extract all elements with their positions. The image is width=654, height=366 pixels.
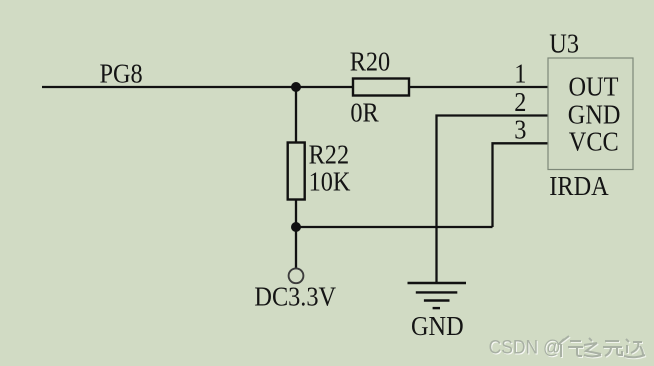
pin 3 bbox=[514, 114, 526, 144]
ground bbox=[408, 283, 467, 308]
resistor R22 bbox=[288, 143, 305, 200]
watermark bbox=[489, 336, 646, 359]
svg-text:2: 2 bbox=[514, 87, 526, 117]
wire bbox=[295, 200, 297, 269]
wire bbox=[296, 226, 493, 228]
pin 2 bbox=[514, 87, 526, 117]
wire bbox=[437, 116, 549, 283]
pin name GND bbox=[568, 99, 621, 129]
pin 1 bbox=[514, 58, 526, 88]
label DC3.3V bbox=[254, 281, 336, 311]
svg-text:R20: R20 bbox=[350, 46, 390, 76]
pin name VCC bbox=[569, 127, 619, 157]
label R22 bbox=[309, 139, 349, 169]
label GND bbox=[411, 311, 464, 341]
node PG8 bbox=[100, 58, 143, 88]
svg-text:CSDN @: CSDN @ bbox=[489, 336, 561, 358]
wire bbox=[409, 86, 548, 88]
svg-text:1: 1 bbox=[514, 58, 526, 88]
svg-text:OUT: OUT bbox=[569, 72, 619, 102]
svg-text:DC3.3V: DC3.3V bbox=[254, 281, 336, 311]
value 10K bbox=[309, 166, 351, 196]
pin name OUT bbox=[569, 72, 619, 102]
IC U3 bbox=[548, 58, 633, 170]
wire bbox=[493, 143, 549, 227]
power terminal DC3.3V bbox=[289, 268, 304, 283]
svg-text:0R: 0R bbox=[350, 97, 379, 127]
value 0R bbox=[350, 97, 379, 127]
svg-text:IRDA: IRDA bbox=[549, 171, 609, 201]
label U3 bbox=[549, 28, 579, 58]
resistor R20 bbox=[353, 79, 409, 96]
junction bbox=[291, 222, 301, 232]
label IRDA bbox=[549, 171, 609, 201]
svg-text:U3: U3 bbox=[549, 28, 579, 58]
wire bbox=[42, 86, 352, 88]
svg-text:PG8: PG8 bbox=[100, 58, 143, 88]
svg-text:10K: 10K bbox=[309, 166, 351, 196]
svg-text:3: 3 bbox=[514, 114, 526, 144]
svg-text:R22: R22 bbox=[309, 139, 349, 169]
svg-text:GND: GND bbox=[411, 311, 464, 341]
svg-text:VCC: VCC bbox=[569, 127, 619, 157]
wire bbox=[295, 87, 297, 143]
svg-text:GND: GND bbox=[568, 99, 621, 129]
label R20 bbox=[350, 46, 390, 76]
junction bbox=[291, 82, 301, 92]
